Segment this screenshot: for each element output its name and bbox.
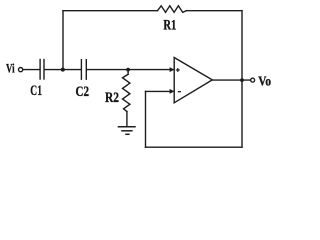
wire node A vertical up to feedback	[62, 11, 64, 70]
capacitor C1	[39, 60, 41, 80]
output terminal Vo (open circle)	[251, 78, 255, 82]
node A junction dot	[61, 68, 65, 72]
op-amp U1 triangle	[174, 58, 212, 103]
svg-text:R1: R1	[163, 18, 176, 34]
wire node A to C2	[62, 69, 81, 71]
ground	[118, 127, 136, 135]
wire Vi terminal to C1	[23, 69, 39, 71]
wire to op-amp - input	[146, 90, 174, 92]
op-amp - pin symbol	[178, 91, 181, 93]
arrowhead into - input	[170, 89, 175, 94]
wire node B vertical stub to R2	[127, 70, 129, 75]
output node junction dot	[240, 78, 244, 82]
wire bottom feedback	[146, 146, 243, 148]
input terminal Vi (open circle)	[19, 68, 23, 72]
svg-text:C1: C1	[30, 83, 42, 99]
wire C2 to op-amp + input (through node B)	[87, 69, 174, 71]
wire top feedback right segment	[186, 10, 242, 12]
node B junction dot	[126, 68, 130, 72]
svg-text:Vi: Vi	[6, 61, 15, 76]
svg-text:C2: C2	[76, 84, 90, 100]
wire left vertical of bottom feedback	[145, 91, 147, 147]
resistor R1	[158, 6, 187, 13]
wire top feedback left segment	[63, 10, 158, 12]
svg-text:R2: R2	[105, 90, 119, 106]
arrowhead into + input	[170, 67, 175, 72]
wire R2 to ground	[126, 112, 128, 127]
wire C1 to node A	[45, 69, 62, 71]
svg-text:Vo: Vo	[258, 74, 271, 89]
resistor R2	[123, 74, 130, 111]
op-amp + pin symbol	[176, 68, 180, 72]
capacitor C2	[80, 60, 82, 79]
wire right vertical (feedback to output node and bottom loop)	[241, 11, 243, 148]
wire op-amp output	[212, 79, 250, 81]
